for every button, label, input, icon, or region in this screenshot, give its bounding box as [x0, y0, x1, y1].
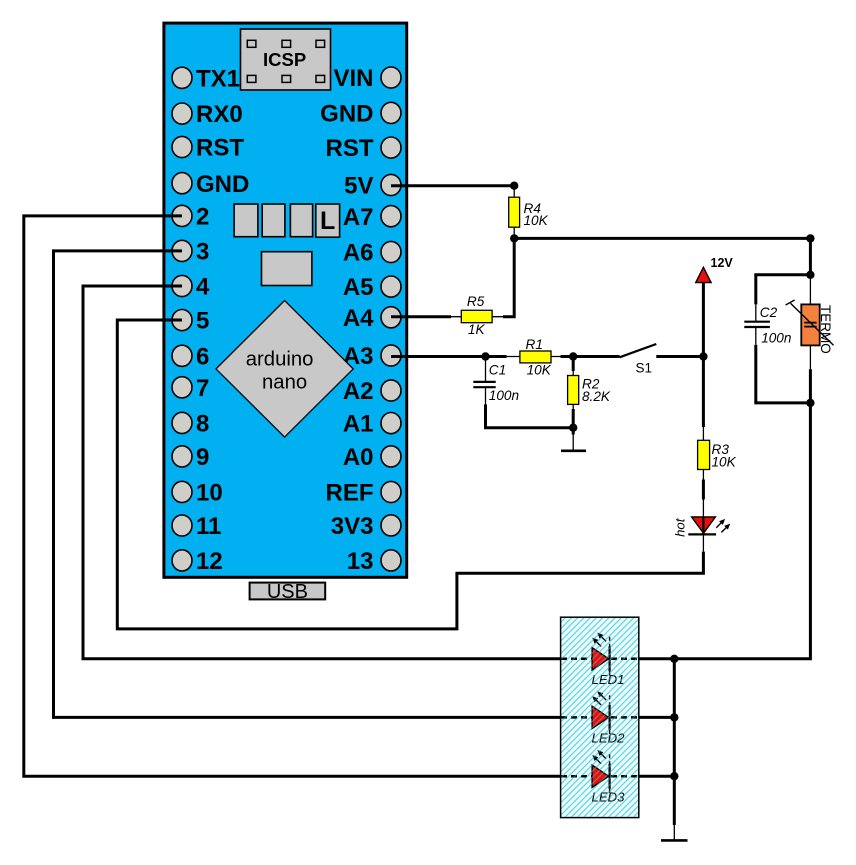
svg-text:TX1: TX1: [196, 65, 240, 92]
resistor R1 10K: [507, 337, 561, 378]
capacitor C1 100n: [473, 357, 519, 405]
pin 2 (left row 5): [172, 204, 209, 231]
svg-text:C1: C1: [489, 362, 506, 377]
svg-text:12: 12: [196, 548, 223, 575]
svg-text:RST: RST: [326, 135, 374, 162]
pin 3 (left row 6): [172, 239, 209, 266]
svg-text:9: 9: [196, 444, 209, 471]
svg-text:5V: 5V: [344, 173, 373, 200]
svg-text:1K: 1K: [468, 322, 486, 337]
svg-text:4: 4: [196, 274, 210, 301]
wire right vertical to termo top: [809, 238, 812, 277]
wire R1 to switch: [561, 355, 620, 358]
wire 5V pin to R4 top node: [391, 184, 514, 187]
node junction 1: [510, 182, 518, 190]
svg-text:S1: S1: [636, 361, 653, 376]
arduino nano board: [164, 23, 407, 577]
arduino nano diamond label: [216, 301, 353, 438]
svg-text:A6: A6: [343, 240, 374, 267]
wire pin2 to LED3: [24, 216, 561, 776]
chip rect: [262, 252, 312, 286]
resistor R5 1K: [451, 294, 503, 337]
svg-text:nano: nano: [262, 372, 307, 394]
svg-text:11: 11: [196, 513, 221, 540]
pin 9 (left row 12): [172, 444, 209, 471]
cathode bus vertical: [673, 659, 676, 825]
svg-text:5: 5: [196, 308, 209, 335]
wire R5 right up to R4 bottom node: [503, 238, 514, 316]
node junction 4: [806, 271, 814, 279]
wire R3 to hot led: [702, 470, 704, 480]
svg-text:A7: A7: [343, 204, 374, 231]
resistor R3 10K: [698, 440, 737, 469]
svg-text:ICSP: ICSP: [263, 49, 306, 70]
svg-text:GND: GND: [320, 101, 373, 128]
wire pin3 to LED2: [54, 251, 562, 718]
L led pad: [316, 204, 340, 237]
wire hot led to pin5 (long route): [702, 534, 704, 551]
svg-text:C2: C2: [760, 305, 778, 320]
pin GND (left row 4): [172, 171, 249, 198]
wire pin4 to LED1: [83, 286, 561, 659]
LED enclosure box: [561, 617, 639, 817]
svg-text:A0: A0: [343, 444, 374, 471]
node junction 10: [670, 655, 678, 663]
pin A2 (right row 10): [343, 378, 401, 405]
svg-text:A2: A2: [343, 378, 374, 405]
pin 5V (right row 4): [344, 173, 401, 200]
node junction 9: [806, 399, 814, 407]
svg-text:arduino: arduino: [246, 348, 314, 370]
switch S1: [620, 344, 657, 376]
12V supply arrow: [696, 256, 734, 283]
wire A4 pin to R5: [391, 315, 451, 318]
svg-text:R1: R1: [526, 337, 543, 352]
pin A1 (right row 11): [343, 411, 401, 438]
ground C1/R2: [561, 428, 586, 451]
node junction 6: [569, 352, 577, 360]
svg-text:8.2K: 8.2K: [582, 389, 611, 404]
svg-text:13: 13: [347, 548, 374, 575]
pin 5 (left row 8): [172, 308, 209, 335]
svg-text:6: 6: [196, 343, 209, 370]
wire C1 bottom to R2 bottom node: [486, 404, 574, 427]
pin TX1 (left row 1): [172, 65, 240, 92]
node junction 5: [481, 352, 489, 360]
LED box hatch overlay: [561, 618, 638, 817]
svg-text:RX0: RX0: [196, 101, 243, 128]
svg-text:USB: USB: [267, 581, 308, 603]
pin A3 (right row 9): [343, 343, 401, 370]
svg-text:VIN: VIN: [333, 65, 373, 92]
wire LED3 to cathode bus: [639, 775, 675, 778]
SMD pads row: [234, 204, 313, 237]
pin RST (right row 3): [326, 135, 402, 162]
svg-text:RST: RST: [196, 135, 244, 162]
node junction 8: [569, 424, 577, 432]
pin REF (right row 13): [326, 480, 402, 507]
pin 3V3 (right row 14): [331, 513, 401, 540]
node junction 12: [670, 772, 678, 780]
capacitor C2 100n: [744, 275, 810, 403]
wire 12V down to R3: [702, 283, 705, 427]
svg-text:7: 7: [196, 375, 209, 402]
USB connector: [250, 581, 326, 603]
svg-text:A1: A1: [343, 411, 374, 438]
svg-text:R5: R5: [467, 294, 485, 309]
led LED2: [561, 691, 639, 745]
svg-text:10K: 10K: [524, 213, 549, 228]
resistor R2 8.2K: [568, 357, 611, 428]
ground bottom: [661, 825, 688, 840]
svg-text:100n: 100n: [489, 388, 519, 403]
svg-text:8: 8: [196, 411, 209, 438]
wire LED2 to cathode bus: [639, 716, 675, 719]
wire R4 bottom across top to right: [514, 237, 810, 240]
node junction 2: [510, 234, 518, 242]
svg-text:10: 10: [196, 480, 223, 507]
pin 8 (left row 11): [172, 411, 209, 438]
pin A6 (right row 6): [343, 240, 401, 267]
pin 11 (left row 14): [172, 513, 221, 540]
pin A5 (right row 7): [343, 274, 401, 301]
svg-text:3: 3: [196, 239, 209, 266]
pin 4 (left row 7): [172, 274, 210, 301]
pin 13 (right row 15): [347, 548, 401, 575]
pin RX0 (left row 2): [172, 101, 243, 128]
led hot (red, down): [672, 517, 730, 537]
svg-text:REF: REF: [326, 480, 374, 507]
wire A3 pin to R1: [391, 355, 507, 358]
svg-text:TERMO: TERMO: [818, 305, 833, 354]
pin VIN (right row 1): [333, 65, 401, 92]
svg-text:A4: A4: [343, 305, 374, 332]
pin RST (left row 3): [172, 135, 244, 162]
svg-text:10K: 10K: [527, 362, 552, 377]
pin GND (right row 2): [320, 101, 401, 128]
svg-text:3V3: 3V3: [331, 513, 374, 540]
svg-text:A5: A5: [343, 274, 374, 301]
pin A7 (right row 5): [343, 204, 401, 231]
pin 10 (left row 13): [172, 480, 223, 507]
led LED1: [561, 633, 639, 687]
pin A4 (right row 8): [343, 305, 401, 332]
svg-text:10K: 10K: [712, 454, 737, 469]
pin A0 (right row 12): [343, 444, 401, 471]
svg-text:L: L: [320, 207, 335, 235]
svg-text:12V: 12V: [711, 256, 734, 270]
wire termo bottom node down right side to LED1 row: [639, 403, 811, 659]
svg-text:GND: GND: [196, 171, 249, 198]
led LED3: [561, 750, 639, 804]
node junction 11: [670, 713, 678, 721]
svg-text:100n: 100n: [761, 331, 791, 346]
pin 6 (left row 9): [172, 343, 209, 370]
svg-text:hot: hot: [672, 517, 687, 537]
svg-text:2: 2: [196, 204, 209, 231]
node junction 7: [699, 352, 707, 360]
pin 12 (left row 15): [172, 548, 223, 575]
node junction 3: [806, 234, 814, 242]
pin 7 (left row 10): [172, 375, 209, 402]
ICSP header: [241, 29, 331, 90]
thermistor TERMO: [786, 277, 834, 403]
resistor R4 10K: [509, 186, 549, 239]
wire switch to 12V line: [656, 355, 703, 358]
